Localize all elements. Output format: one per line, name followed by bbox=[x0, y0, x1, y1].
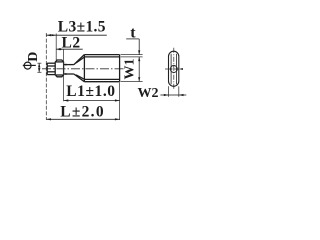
svg-text:L2: L2 bbox=[62, 35, 81, 52]
svg-text:W1: W1 bbox=[123, 59, 138, 80]
svg-text:t: t bbox=[130, 25, 136, 42]
svg-text:D: D bbox=[26, 52, 41, 62]
svg-text:L1±1.0: L1±1.0 bbox=[66, 83, 115, 100]
svg-text:W2: W2 bbox=[138, 86, 159, 101]
svg-text:L±2.0: L±2.0 bbox=[60, 104, 105, 121]
svg-text:L3±1.5: L3±1.5 bbox=[58, 18, 106, 35]
